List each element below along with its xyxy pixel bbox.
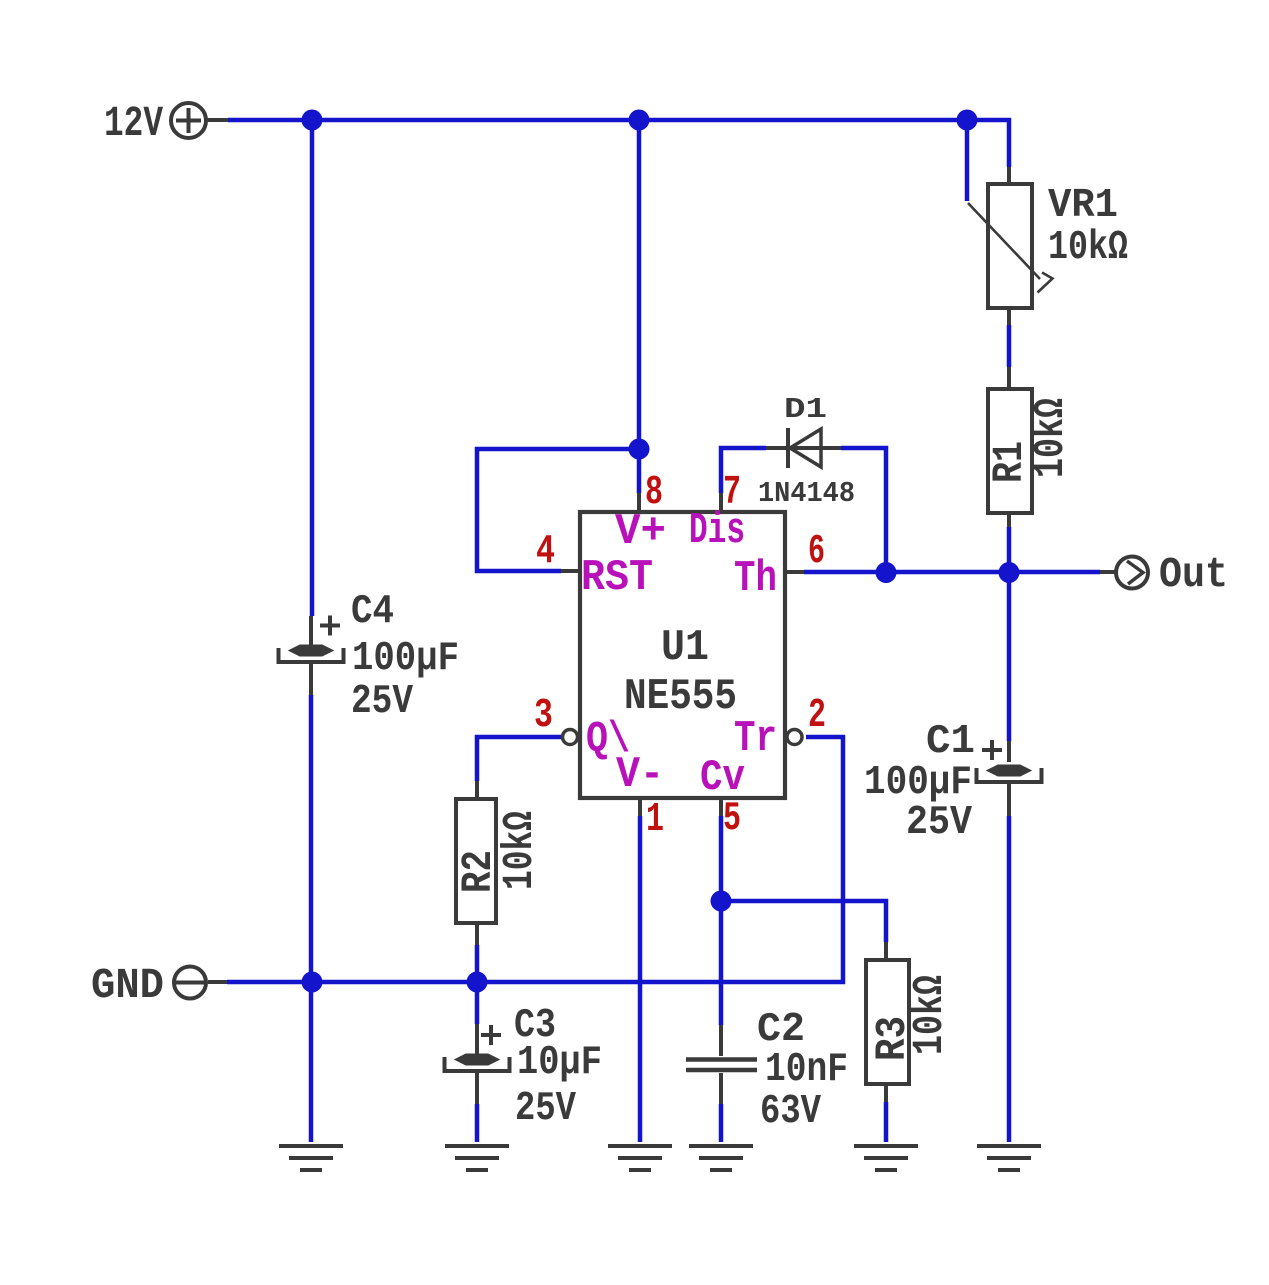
svg-text:100µF: 100µF — [352, 636, 459, 682]
svg-text:RST: RST — [581, 553, 653, 603]
svg-text:4: 4 — [536, 529, 555, 575]
svg-text:10kΩ: 10kΩ — [905, 975, 954, 1055]
svg-text:10nF: 10nF — [765, 1047, 848, 1093]
svg-text:1: 1 — [646, 797, 664, 843]
svg-text:VR1: VR1 — [1048, 183, 1118, 229]
svg-text:3: 3 — [534, 693, 553, 739]
svg-text:25V: 25V — [906, 800, 972, 846]
svg-text:6: 6 — [808, 529, 825, 575]
svg-text:Out: Out — [1159, 550, 1228, 599]
svg-text:GND: GND — [91, 961, 164, 1010]
svg-text:63V: 63V — [760, 1089, 821, 1135]
svg-text:NE555: NE555 — [624, 672, 737, 722]
svg-text:V+: V+ — [615, 507, 666, 557]
svg-text:10kΩ: 10kΩ — [1048, 225, 1128, 271]
svg-text:10kΩ: 10kΩ — [1026, 398, 1075, 478]
svg-text:Dis: Dis — [689, 506, 745, 556]
svg-text:Th: Th — [734, 554, 777, 604]
svg-text:C1: C1 — [926, 719, 975, 765]
svg-text:D1: D1 — [784, 393, 827, 426]
svg-text:10kΩ: 10kΩ — [495, 811, 544, 890]
svg-text:1N4148: 1N4148 — [758, 477, 855, 510]
svg-text:25V: 25V — [515, 1086, 576, 1132]
svg-text:10µF: 10µF — [517, 1040, 602, 1086]
svg-text:C4: C4 — [351, 589, 394, 635]
svg-text:25V: 25V — [351, 679, 413, 725]
svg-text:V-: V- — [616, 750, 664, 800]
svg-text:Cv: Cv — [700, 753, 745, 803]
svg-text:2: 2 — [808, 693, 826, 739]
svg-text:12V: 12V — [104, 99, 163, 148]
svg-text:U1: U1 — [661, 623, 709, 673]
